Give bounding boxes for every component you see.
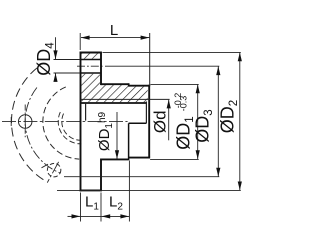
body right face [148, 85, 150, 158]
dimension D4: upper extension line [54, 59, 81, 61]
dimension D2: line with arrows [239, 53, 241, 191]
dimension L1-L2 shared line [81, 215, 102, 217]
hatching: flange above bolt hole [81, 53, 100, 59]
bolt circle D3 (dash-dot) [25, 88, 60, 173]
shoulder bottom silhouette [101, 158, 129, 160]
dimension D4: lower extension line [54, 72, 81, 74]
dimension D3: bottom extension line [64, 176, 219, 178]
svg-text:L: L [110, 22, 118, 39]
dimension D1: bottom extension line [150, 158, 199, 160]
body bottom silhouette [129, 157, 151, 159]
bolt hole upper edge (section) [81, 59, 102, 61]
tick cross left of hole 2 [42, 164, 49, 168]
flange right face upper part [100, 53, 102, 86]
L1/L2: left extension line [80, 193, 82, 222]
hatching: flange below hole + hub body down to bore [81, 74, 147, 102]
radial center line through hole 2 (dash-dot) [47, 162, 58, 183]
main horizontal center line [2, 121, 128, 123]
thread major thin line + extension for d [81, 98, 170, 100]
dimension L2: line with arrows [101, 215, 129, 217]
L1/L2: right extension line [128, 161, 130, 222]
svg-text:-0.3: -0.3 [178, 96, 188, 112]
bolt hole 2 (lower left, dashed) [47, 163, 61, 177]
flange right face lower part [100, 159, 102, 191]
bore line thick (thread minor) [81, 102, 147, 104]
bore circle d (dashed) [58, 112, 81, 144]
dimension D3: line with arrows [217, 66, 219, 176]
front view circles (left, phantom) [11, 68, 81, 183]
svg-text:Ød: Ød [151, 110, 170, 133]
thread runout edge inside bore (right) [145, 102, 147, 124]
bolt hole lower edge (section) [81, 72, 102, 74]
dimension D3: top extension line [105, 65, 219, 67]
tick at D2 circle / center line crossing [10, 117, 12, 126]
dimension D1: top extension line [151, 83, 199, 85]
part outline: flange left face [80, 52, 82, 192]
dimension D1: line with arrows [197, 85, 199, 159]
shoulder top edge (D1) [101, 83, 129, 85]
step between shoulder and body [128, 83, 130, 86]
L1/L2: middle extension line [100, 193, 102, 222]
hub circle D1 (dashed) [43, 87, 79, 159]
dimension L: right extension line [149, 33, 151, 86]
wrench flat left edge [128, 123, 130, 160]
wrench flat top edge (below axis) [129, 122, 147, 124]
bore minor circle (dashed) [62, 114, 81, 141]
flange bottom edge [80, 189, 102, 191]
dimension D4: upper arrow [55, 37, 57, 59]
dimension L: line with arrows [81, 37, 149, 39]
dimension D4: lower arrow [55, 73, 57, 80]
flange outline circle D2 (dashed) [11, 68, 47, 182]
bolt hole 1 vertical center line [24, 105, 26, 138]
thread runout edge inside bore (left) [85, 103, 87, 120]
dimension D2: bottom extension line [57, 189, 241, 191]
ØD1 h9 leader arrow (down to shoulder silhouette) [116, 112, 118, 159]
dimension L1: outside arrow line [68, 215, 81, 217]
dimension d: line with top arrow [168, 100, 170, 141]
dimension D2: top extension line [103, 51, 241, 53]
bolt hole 1 (left, solid) [18, 115, 32, 129]
dimension L: left extension line [79, 33, 81, 50]
body top edge [129, 85, 150, 87]
bolt hole center line (section) [77, 65, 104, 67]
flange top edge [80, 52, 102, 54]
